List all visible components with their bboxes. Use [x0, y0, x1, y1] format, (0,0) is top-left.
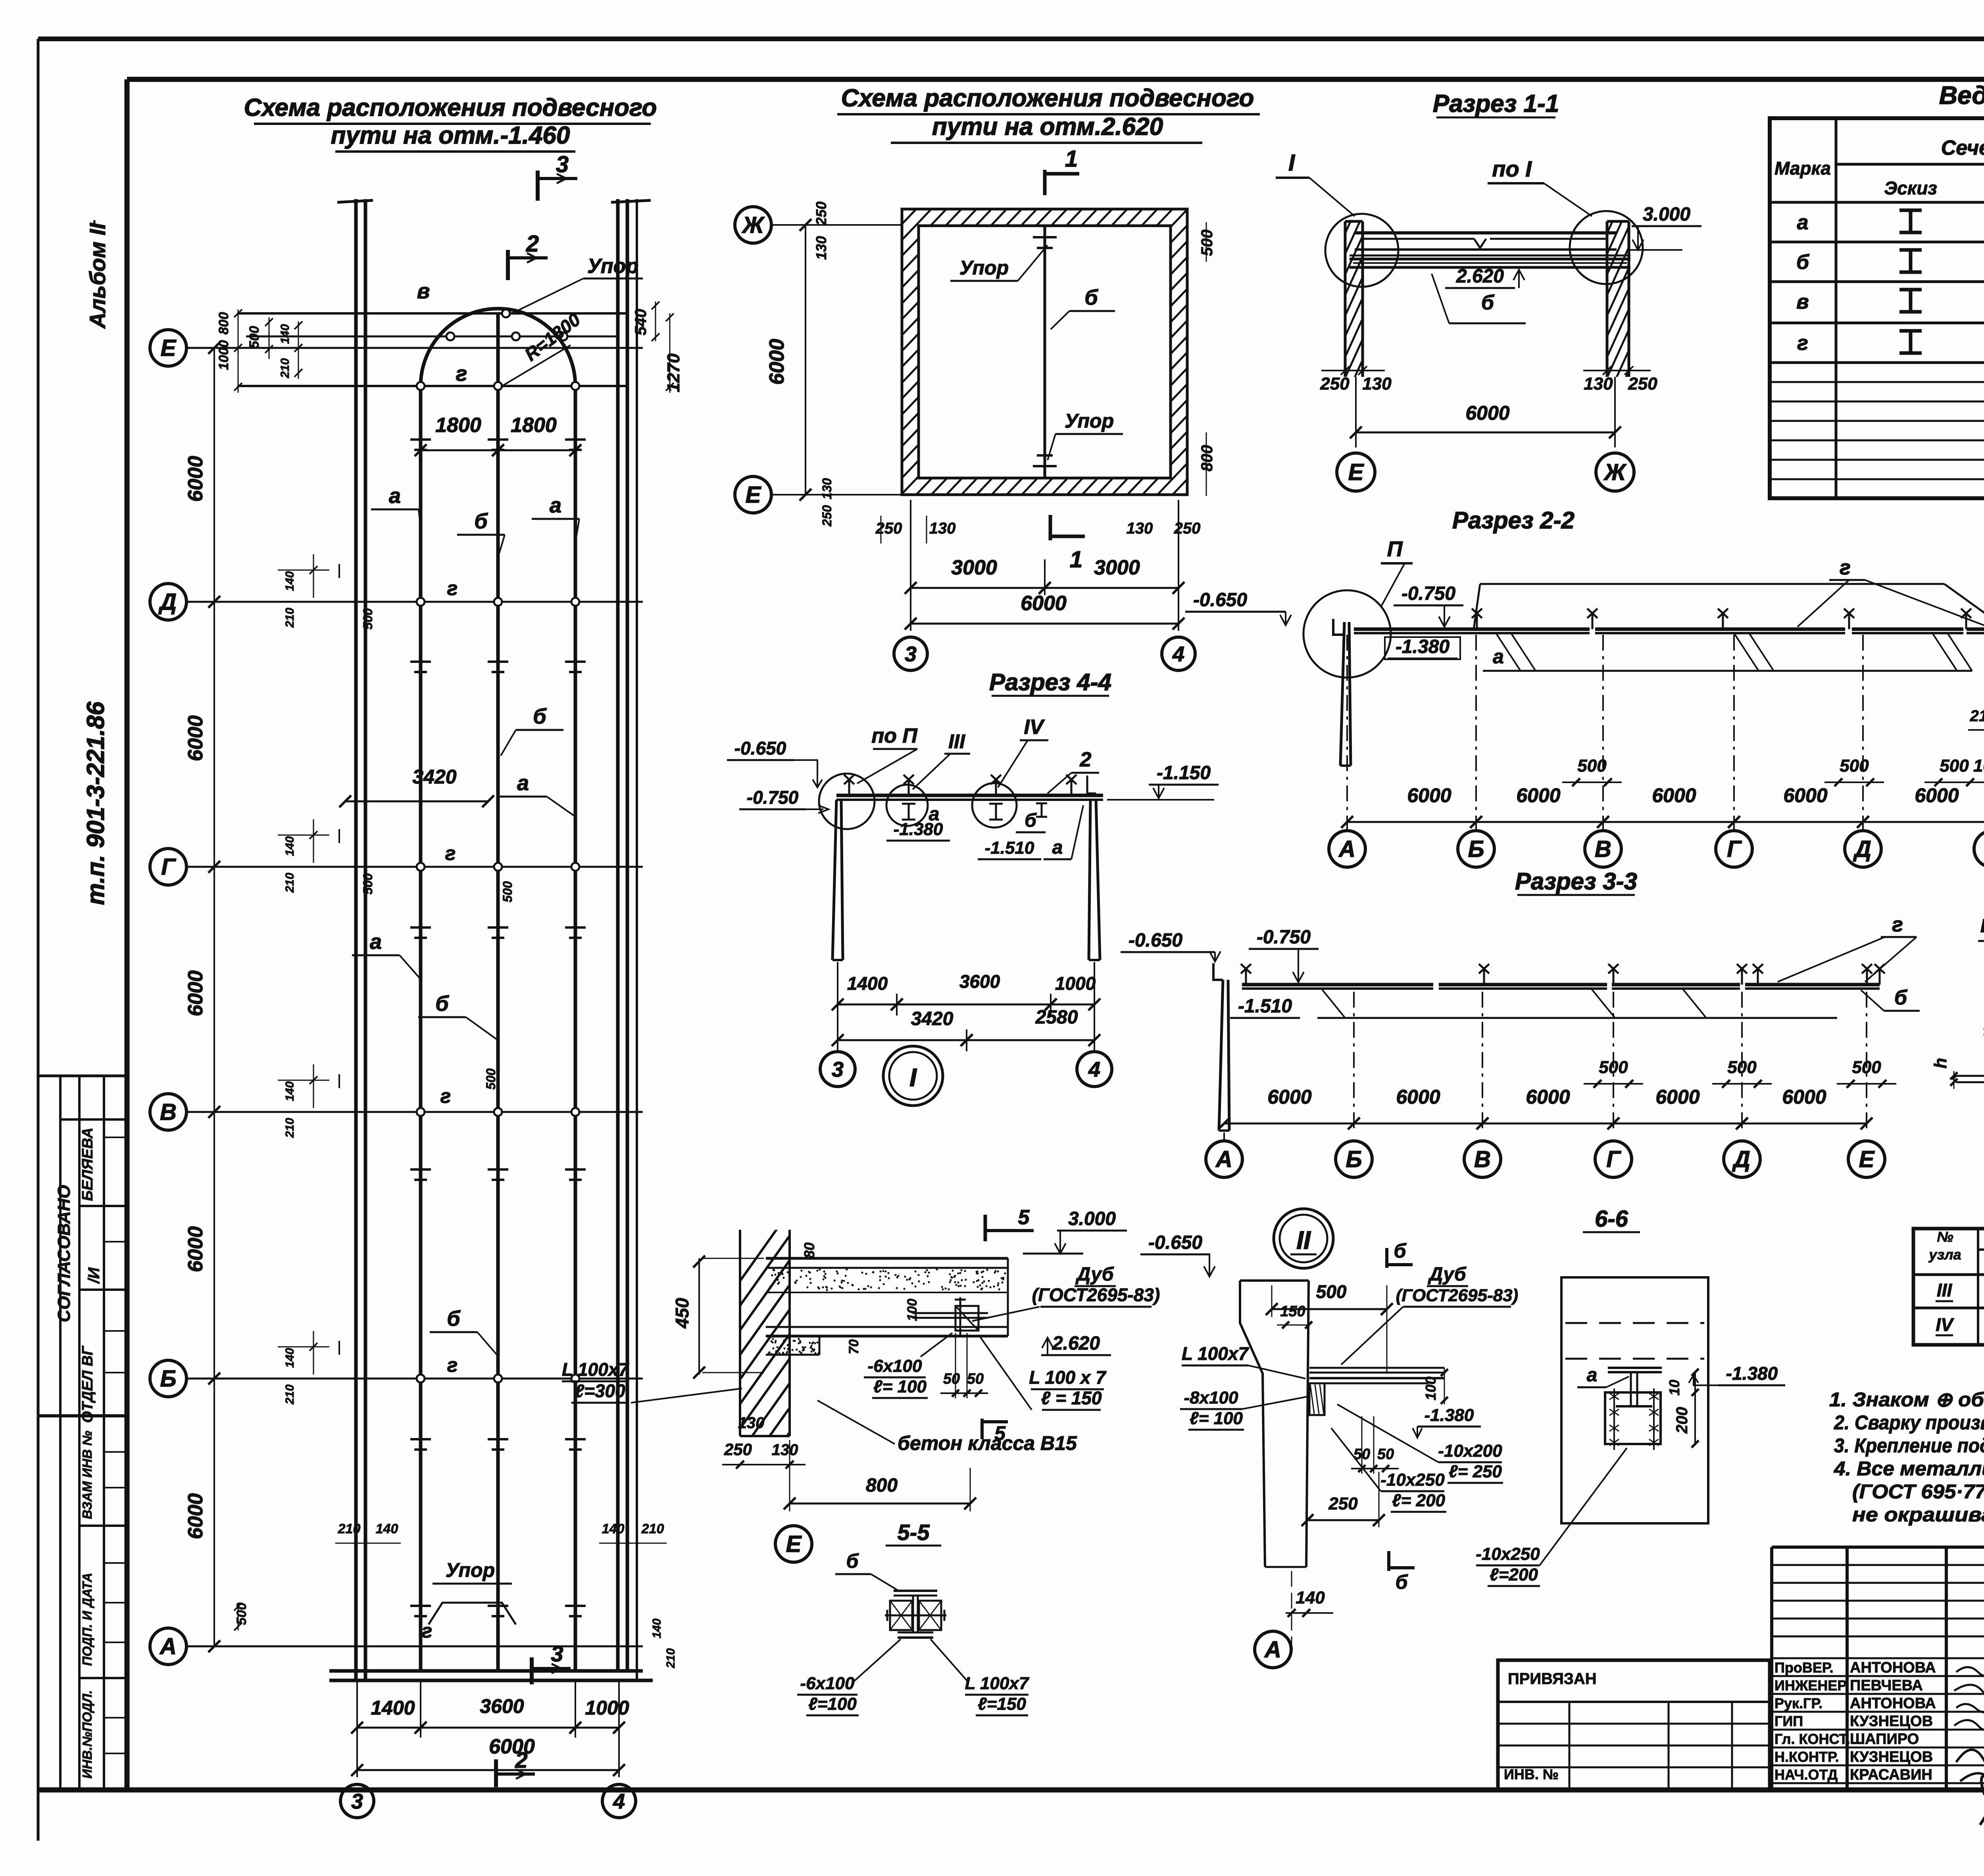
- svg-text:250: 250: [1174, 520, 1201, 537]
- svg-text:210: 210: [279, 358, 292, 378]
- svg-text:250: 250: [1628, 374, 1657, 394]
- svg-text:6000: 6000: [1516, 784, 1560, 806]
- svg-text:250: 250: [1328, 1494, 1358, 1513]
- svg-text:3: 3: [832, 1058, 844, 1081]
- svg-text:L 100х7: L 100х7: [1182, 1343, 1249, 1364]
- svg-text:б: б: [1394, 1240, 1407, 1262]
- svg-text:140: 140: [602, 1521, 625, 1536]
- svg-text:III: III: [948, 730, 965, 753]
- svg-text:6000: 6000: [184, 970, 207, 1016]
- svg-text:130: 130: [820, 478, 834, 499]
- svg-text:6000: 6000: [1465, 402, 1509, 424]
- svg-text:а: а: [389, 484, 401, 508]
- svg-text:а: а: [1587, 1365, 1598, 1386]
- svg-text:70: 70: [846, 1339, 861, 1354]
- svg-text:140: 140: [376, 1521, 398, 1536]
- svg-text:L 100 х 7: L 100 х 7: [1029, 1367, 1107, 1388]
- svg-text:130: 130: [772, 1441, 798, 1459]
- svg-text:ℓ=150: ℓ=150: [978, 1694, 1026, 1714]
- svg-text:П: П: [1387, 537, 1403, 561]
- svg-text:140: 140: [279, 324, 292, 344]
- svg-text:Гл. КОНСТ.: Гл. КОНСТ.: [1774, 1731, 1850, 1747]
- svg-text:№: №: [1937, 1229, 1953, 1245]
- svg-text:по П: по П: [871, 724, 918, 747]
- svg-text:100: 100: [905, 1299, 920, 1321]
- svg-text:Разрез 3-3: Разрез 3-3: [1515, 868, 1637, 895]
- svg-text:Марка: Марка: [1774, 158, 1831, 179]
- svg-text:3. Крепление подкранового пути: 3. Крепление подкранового пути- болтовое…: [1834, 1434, 1984, 1457]
- svg-text:б: б: [533, 705, 547, 728]
- svg-text:h: h: [1931, 1058, 1950, 1069]
- svg-text:6000: 6000: [184, 1226, 207, 1272]
- svg-text:450: 450: [672, 1298, 692, 1329]
- svg-text:6000: 6000: [1396, 1086, 1440, 1108]
- svg-text:III: III: [1937, 1280, 1953, 1300]
- svg-text:5: 5: [994, 1422, 1006, 1444]
- svg-text:ВЗАМ ИНВ №: ВЗАМ ИНВ №: [80, 1431, 94, 1519]
- svg-text:130: 130: [813, 236, 829, 260]
- svg-text:ℓ= 250: ℓ= 250: [1449, 1462, 1502, 1481]
- svg-text:-10х250: -10х250: [1380, 1470, 1445, 1490]
- svg-text:КУЗНЕЦОВ: КУЗНЕЦОВ: [1850, 1713, 1933, 1730]
- svg-text:130: 130: [1127, 520, 1153, 537]
- svg-text:г: г: [440, 1085, 451, 1107]
- svg-text:ПОДП. И ДАТА: ПОДП. И ДАТА: [80, 1573, 94, 1666]
- svg-text:800: 800: [216, 312, 231, 335]
- svg-text:-0.650: -0.650: [734, 738, 786, 758]
- svg-text:IV: IV: [1024, 716, 1045, 739]
- svg-text:6000: 6000: [184, 456, 207, 502]
- svg-text:Схема расположения подвесного: Схема расположения подвесного: [244, 94, 657, 121]
- svg-text:II: II: [1296, 1226, 1311, 1254]
- svg-text:500: 500: [234, 1603, 249, 1625]
- svg-text:500: 500: [1198, 230, 1216, 256]
- svg-text:100: 100: [1423, 1377, 1439, 1400]
- svg-text:ℓ=300: ℓ=300: [575, 1381, 625, 1401]
- svg-text:140: 140: [650, 1619, 663, 1638]
- svg-text:А: А: [1215, 1146, 1232, 1172]
- svg-text:500: 500: [1940, 756, 1969, 776]
- svg-text:А: А: [159, 1634, 177, 1659]
- svg-text:-6х100: -6х100: [800, 1674, 855, 1693]
- svg-text:140: 140: [283, 836, 296, 856]
- svg-text:210: 210: [283, 1384, 296, 1405]
- svg-text:250: 250: [1320, 374, 1350, 394]
- svg-text:-0.650: -0.650: [1128, 930, 1182, 951]
- svg-text:500: 500: [247, 326, 262, 349]
- svg-text:3000: 3000: [1094, 556, 1140, 579]
- svg-text:80: 80: [801, 1242, 817, 1258]
- svg-text:-1.510: -1.510: [985, 838, 1034, 858]
- svg-text:1800: 1800: [435, 414, 481, 437]
- svg-text:Б: Б: [1346, 1146, 1362, 1172]
- svg-text:2: 2: [515, 1747, 527, 1772]
- svg-text:-0.650: -0.650: [1193, 589, 1247, 611]
- svg-text:-0.650: -0.650: [1148, 1232, 1202, 1253]
- svg-text:10: 10: [1666, 1380, 1682, 1396]
- svg-text:2: 2: [1080, 748, 1092, 771]
- svg-text:6000: 6000: [1655, 1086, 1699, 1108]
- svg-text:по I: по I: [1492, 156, 1532, 181]
- svg-text:250: 250: [813, 202, 829, 226]
- svg-text:-0.750: -0.750: [747, 787, 799, 808]
- svg-text:ПРИВЯЗАН: ПРИВЯЗАН: [1508, 1670, 1597, 1688]
- svg-text:ОТДЕЛ ВГ: ОТДЕЛ ВГ: [79, 1346, 96, 1423]
- svg-text:(ГОСТ 695·77) за 2раза. Е: (ГОСТ 695·77) за 2раза. Ездовую поверхно…: [1852, 1480, 1984, 1503]
- svg-text:3420: 3420: [911, 1008, 954, 1029]
- svg-text:210: 210: [283, 873, 296, 893]
- svg-text:Упор: Упор: [446, 1559, 495, 1581]
- svg-text:не окрашивать.: не окрашивать.: [1852, 1503, 1984, 1526]
- svg-text:Разрез 1-1: Разрез 1-1: [1433, 90, 1559, 117]
- svg-text:ℓ= 100: ℓ= 100: [1190, 1409, 1243, 1428]
- svg-text:140: 140: [283, 1081, 296, 1101]
- svg-text:КУЗНЕЦОВ: КУЗНЕЦОВ: [1850, 1749, 1933, 1765]
- svg-text:Разрез 4-4: Разрез 4-4: [989, 669, 1111, 695]
- svg-text:Рук.ГР.: Рук.ГР.: [1774, 1695, 1823, 1711]
- svg-text:Дуб: Дуб: [1075, 1264, 1114, 1285]
- svg-text:г: г: [447, 1354, 458, 1376]
- svg-text:6000: 6000: [489, 1735, 535, 1758]
- svg-text:Упор: Упор: [587, 255, 638, 278]
- svg-text:50: 50: [943, 1371, 960, 1387]
- svg-text:500: 500: [1316, 1281, 1347, 1302]
- svg-text:6000: 6000: [765, 339, 788, 385]
- svg-text:140: 140: [283, 571, 296, 591]
- svg-text:-10х250: -10х250: [1476, 1544, 1540, 1564]
- svg-text:г: г: [456, 362, 467, 386]
- svg-text:Б: Б: [160, 1366, 176, 1392]
- svg-text:б: б: [1084, 286, 1098, 309]
- svg-text:210: 210: [283, 608, 296, 628]
- svg-text:Г: Г: [1606, 1146, 1621, 1172]
- svg-text:210: 210: [641, 1521, 664, 1536]
- svg-text:Д: Д: [158, 589, 177, 615]
- svg-text:3: 3: [556, 152, 569, 177]
- svg-text:ИНВ. №: ИНВ. №: [1504, 1766, 1559, 1782]
- svg-text:Г: Г: [1727, 836, 1742, 862]
- svg-text:Е: Е: [746, 482, 762, 508]
- svg-text:Е: Е: [161, 335, 177, 361]
- svg-text:б: б: [846, 1550, 859, 1572]
- svg-text:130: 130: [738, 1414, 765, 1432]
- svg-text:6000: 6000: [1021, 592, 1067, 615]
- svg-text:4. Все металлические констр: 4. Все металлические конструкции окрасит…: [1834, 1457, 1984, 1480]
- svg-text:ИНЖЕНЕР: ИНЖЕНЕР: [1774, 1677, 1847, 1694]
- svg-text:500: 500: [361, 873, 375, 895]
- svg-text:Д: Д: [1732, 1146, 1750, 1172]
- svg-text:СОГЛАСОВАНО: СОГЛАСОВАНО: [54, 1185, 74, 1322]
- svg-text:6000: 6000: [1782, 1086, 1826, 1108]
- svg-text:в: в: [417, 279, 430, 303]
- svg-text:А: А: [1338, 836, 1355, 862]
- svg-text:1: 1: [1070, 547, 1082, 572]
- svg-text:ШАПИРО: ШАПИРО: [1850, 1731, 1919, 1747]
- svg-text:2: 2: [526, 231, 539, 257]
- svg-text:б: б: [447, 1307, 461, 1331]
- svg-text:130: 130: [929, 520, 956, 537]
- svg-text:5-5: 5-5: [898, 1520, 930, 1545]
- svg-text:L 100х7: L 100х7: [965, 1674, 1030, 1693]
- svg-text:6000: 6000: [184, 715, 207, 761]
- svg-text:Д: Д: [1853, 836, 1871, 862]
- svg-text:б: б: [435, 992, 449, 1016]
- svg-text:500: 500: [361, 608, 375, 630]
- svg-text:-8х100: -8х100: [1184, 1388, 1238, 1407]
- svg-text:130: 130: [1362, 374, 1392, 394]
- svg-text:г: г: [422, 1620, 433, 1642]
- svg-text:КРАСАВИН: КРАСАВИН: [1850, 1767, 1932, 1783]
- svg-text:50: 50: [1377, 1446, 1394, 1463]
- svg-text:б: б: [1025, 810, 1037, 831]
- svg-text:3: 3: [551, 1641, 563, 1666]
- svg-text:ГИП: ГИП: [1774, 1713, 1803, 1729]
- svg-text:(ГОСТ2695-83): (ГОСТ2695-83): [1396, 1286, 1518, 1305]
- svg-text:250: 250: [875, 520, 902, 537]
- svg-text:-0.750: -0.750: [1401, 583, 1455, 604]
- svg-text:500: 500: [484, 1068, 498, 1090]
- svg-text:а: а: [517, 771, 529, 795]
- svg-text:3000: 3000: [951, 556, 997, 579]
- svg-text:5: 5: [1018, 1206, 1030, 1229]
- svg-text:Упор: Упор: [959, 257, 1009, 279]
- svg-text:1400: 1400: [371, 1697, 415, 1719]
- svg-text:ℓ = 150: ℓ = 150: [1041, 1388, 1102, 1408]
- svg-text:г: г: [1797, 332, 1808, 355]
- svg-text:1000: 1000: [585, 1697, 629, 1719]
- svg-text:г: г: [445, 842, 456, 864]
- svg-text:Ж: Ж: [1603, 459, 1627, 485]
- svg-text:-6х100: -6х100: [867, 1356, 922, 1376]
- svg-text:210: 210: [664, 1648, 677, 1669]
- svg-text:а: а: [370, 930, 382, 954]
- svg-text:ПроВЕР.: ПроВЕР.: [1774, 1659, 1833, 1676]
- svg-text:ℓ= 200: ℓ= 200: [1392, 1491, 1446, 1510]
- svg-text:Ж: Ж: [741, 212, 765, 238]
- svg-text:500: 500: [500, 881, 515, 902]
- svg-text:В: В: [160, 1099, 177, 1125]
- svg-text:г: г: [1840, 556, 1851, 579]
- svg-text:4: 4: [1088, 1058, 1100, 1081]
- svg-text:6000: 6000: [184, 1493, 207, 1539]
- svg-text:210: 210: [283, 1118, 296, 1138]
- svg-text:Эскиз: Эскиз: [1884, 178, 1937, 198]
- svg-text:а: а: [1493, 645, 1504, 668]
- svg-text:б: б: [1796, 251, 1810, 274]
- svg-text:540: 540: [632, 309, 650, 336]
- svg-text:/И: /И: [85, 1267, 103, 1284]
- svg-text:Б: Б: [1468, 836, 1484, 862]
- svg-text:-1.380: -1.380: [1425, 1406, 1474, 1425]
- svg-text:L 100х7: L 100х7: [562, 1359, 629, 1380]
- svg-text:6000: 6000: [1915, 784, 1959, 806]
- svg-text:Дуб: Дуб: [1428, 1264, 1467, 1285]
- svg-text:Н.КОНТР.: Н.КОНТР.: [1774, 1749, 1839, 1765]
- svg-text:ИНВ.№ПОДЛ.: ИНВ.№ПОДЛ.: [80, 1690, 94, 1778]
- svg-text:140: 140: [1296, 1588, 1325, 1607]
- svg-text:б: б: [1481, 291, 1495, 314]
- svg-text:1270: 1270: [664, 353, 683, 392]
- svg-text:250: 250: [820, 505, 834, 527]
- svg-text:1000: 1000: [1973, 756, 1984, 776]
- svg-text:3600: 3600: [959, 971, 1000, 992]
- svg-text:3.000: 3.000: [1643, 204, 1690, 225]
- svg-text:БЕЛЯЕВА: БЕЛЯЕВА: [79, 1127, 96, 1201]
- svg-text:130: 130: [1584, 374, 1613, 394]
- svg-text:ℓ= 100: ℓ= 100: [873, 1377, 927, 1396]
- svg-text:-1.510: -1.510: [1238, 996, 1292, 1017]
- svg-text:а: а: [1797, 211, 1809, 234]
- svg-text:Е: Е: [1859, 1146, 1875, 1172]
- svg-text:I: I: [909, 1063, 917, 1092]
- svg-text:В: В: [1474, 1146, 1491, 1172]
- svg-text:6000: 6000: [1526, 1086, 1570, 1108]
- svg-text:НАЧ.ОТД: НАЧ.ОТД: [1774, 1767, 1838, 1783]
- svg-text:150: 150: [1280, 1303, 1305, 1320]
- svg-text:2.620: 2.620: [1456, 266, 1504, 287]
- svg-text:-10х200: -10х200: [1438, 1441, 1502, 1461]
- svg-text:3.000: 3.000: [1068, 1208, 1116, 1229]
- svg-text:3: 3: [905, 642, 917, 666]
- svg-text:1000: 1000: [1055, 973, 1096, 994]
- svg-text:800: 800: [1198, 445, 1216, 472]
- svg-text:Сечение: Сечение: [1941, 136, 1984, 159]
- svg-text:140: 140: [283, 1348, 296, 1368]
- svg-text:210: 210: [338, 1521, 361, 1536]
- svg-text:210: 210: [1970, 707, 1984, 725]
- svg-text:Е: Е: [786, 1531, 802, 1557]
- svg-text:Ведомость: Ведомость: [1939, 81, 1984, 109]
- svg-text:б: б: [1396, 1571, 1409, 1593]
- svg-text:1: 1: [1065, 146, 1078, 172]
- svg-text:200: 200: [1673, 1407, 1691, 1434]
- svg-text:-1.380: -1.380: [1726, 1363, 1778, 1384]
- svg-text:I: I: [1288, 150, 1296, 176]
- svg-text:500: 500: [1840, 756, 1869, 776]
- svg-text:3600: 3600: [480, 1695, 524, 1717]
- svg-text:2580: 2580: [1035, 1007, 1078, 1028]
- svg-text:г: г: [447, 577, 458, 599]
- svg-text:в: в: [1796, 290, 1809, 313]
- svg-text:3: 3: [351, 1790, 363, 1813]
- svg-text:4: 4: [613, 1790, 625, 1813]
- svg-text:В: В: [1595, 836, 1611, 862]
- svg-text:1800: 1800: [511, 414, 557, 437]
- svg-text:1. Знаком ⊕ обозначены мест: 1. Знаком ⊕ обозначены места крепления м…: [1829, 1388, 1984, 1411]
- svg-text:Е: Е: [1348, 459, 1365, 485]
- svg-text:бетон класса В15: бетон класса В15: [898, 1432, 1077, 1454]
- svg-text:а: а: [929, 804, 940, 825]
- svg-text:4: 4: [1172, 642, 1184, 666]
- svg-text:т.п. 901-3-221.86: т.п. 901-3-221.86: [82, 701, 110, 905]
- svg-text:ℓ=100: ℓ=100: [808, 1694, 857, 1714]
- svg-text:АНТОНОВА: АНТОНОВА: [1850, 1695, 1936, 1712]
- svg-text:а: а: [1052, 837, 1063, 858]
- svg-text:Упор: Упор: [1065, 410, 1114, 432]
- svg-text:50: 50: [967, 1371, 984, 1387]
- svg-text:Схема расположения подвесного: Схема расположения подвесного: [841, 84, 1254, 112]
- svg-text:пути на отм.2.620: пути на отм.2.620: [932, 113, 1163, 140]
- svg-text:А: А: [1264, 1637, 1281, 1663]
- svg-text:1400: 1400: [847, 973, 888, 994]
- svg-text:ПЕВЧЕВА: ПЕВЧЕВА: [1850, 1677, 1923, 1694]
- svg-text:Г: Г: [161, 854, 176, 880]
- svg-text:-1.380: -1.380: [1396, 636, 1450, 657]
- svg-text:2.620: 2.620: [1052, 1333, 1100, 1354]
- svg-text:б: б: [474, 509, 488, 533]
- svg-text:250: 250: [724, 1440, 752, 1459]
- svg-text:6-6: 6-6: [1595, 1206, 1628, 1232]
- svg-text:IV: IV: [1936, 1314, 1954, 1335]
- svg-text:-1.150: -1.150: [1157, 762, 1211, 783]
- svg-text:Альбом II: Альбом II: [85, 223, 110, 329]
- svg-text:Разрез 2-2: Разрез 2-2: [1452, 507, 1575, 534]
- svg-text:6000: 6000: [1407, 784, 1451, 806]
- svg-text:узла: узла: [1928, 1246, 1961, 1263]
- svg-text:(ГОСТ2695-83): (ГОСТ2695-83): [1032, 1285, 1160, 1305]
- svg-text:г: г: [1892, 913, 1903, 936]
- svg-text:а: а: [550, 493, 561, 517]
- svg-text:1000: 1000: [216, 340, 231, 370]
- svg-text:6000: 6000: [1267, 1086, 1311, 1108]
- svg-text:б: б: [1894, 986, 1908, 1009]
- svg-text:800: 800: [866, 1475, 898, 1496]
- svg-text:-0.750: -0.750: [1257, 927, 1311, 948]
- svg-text:6000: 6000: [1652, 784, 1696, 806]
- svg-text:Шайба δ˖δпл: Шайба δ˖δпл: [1980, 916, 1984, 937]
- svg-text:ℓ=200: ℓ=200: [1490, 1565, 1538, 1584]
- svg-text:2. Сварку производить электрод: 2. Сварку производить электродами Э42(ГО…: [1834, 1411, 1984, 1434]
- svg-text:АНТОНОВА: АНТОНОВА: [1850, 1659, 1936, 1676]
- svg-text:3420: 3420: [412, 766, 456, 788]
- svg-text:пути на отм.-1.460: пути на отм.-1.460: [331, 122, 570, 149]
- svg-text:6000: 6000: [1783, 784, 1827, 806]
